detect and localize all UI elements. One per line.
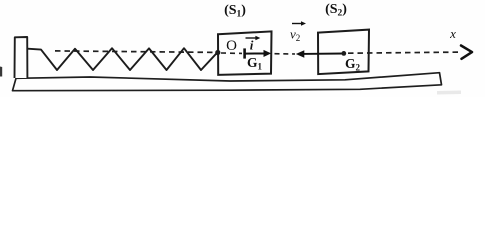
- block S1: [218, 31, 272, 75]
- svg-text:(S2): (S2): [325, 2, 347, 19]
- unit vector i arrow: [245, 53, 266, 55]
- v2 velocity arrow: [302, 53, 344, 55]
- G2 dot: [341, 51, 346, 56]
- dashed segment right of G2 to x arrow: [348, 52, 460, 53]
- svg-text:(S1): (S1): [224, 3, 246, 20]
- spring: [28, 48, 218, 70]
- ground plank: [13, 73, 442, 91]
- dashed x-axis line (left segment over spring): [55, 51, 217, 53]
- dashed segment inside S1 (O to origin tick): [221, 52, 242, 54]
- spring-to-block attachment dot: [215, 50, 220, 55]
- svg-text:i: i: [250, 37, 254, 52]
- arrow over i: [246, 37, 258, 39]
- x-axis arrowhead: [461, 46, 472, 59]
- wall post: [15, 37, 28, 78]
- svg-text:O: O: [226, 38, 237, 54]
- scan artifact mark at left image edge: [0, 67, 2, 77]
- arrow over v2: [292, 23, 303, 25]
- faint scan streak bottom-right: [437, 91, 461, 95]
- svg-text:x: x: [449, 26, 456, 41]
- block S2: [318, 30, 369, 75]
- origin tick at G1: [243, 48, 246, 58]
- dashed segment between S1 and v2 arrow: [275, 53, 296, 55]
